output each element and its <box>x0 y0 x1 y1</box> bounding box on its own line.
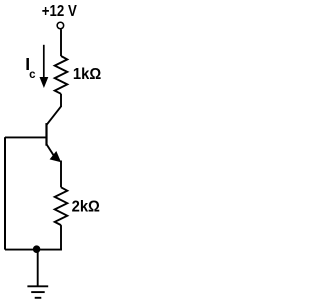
svg-text:1kΩ: 1kΩ <box>73 66 101 83</box>
svg-text:c: c <box>29 69 36 81</box>
svg-text:+12 V: +12 V <box>42 3 77 20</box>
svg-text:2kΩ: 2kΩ <box>72 198 100 215</box>
